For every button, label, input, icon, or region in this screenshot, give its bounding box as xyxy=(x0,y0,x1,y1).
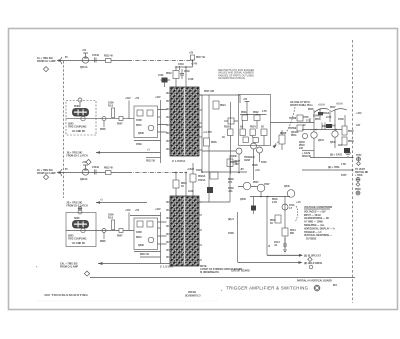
connector arrow CH2 xyxy=(59,171,62,174)
svg-text:FROM CH 2 LATCH: FROM CH 2 LATCH xyxy=(67,205,88,208)
svg-text:+4.5: +4.5 xyxy=(296,201,301,204)
svg-text:NOTE:: NOTE: xyxy=(200,266,207,268)
svg-text:C532: C532 xyxy=(261,162,267,164)
resistor R538 xyxy=(253,138,258,143)
wire: through box CH2 xyxy=(66,230,134,232)
svg-text:+ TRIG: + TRIG xyxy=(355,175,363,177)
transistor Q546 xyxy=(332,131,338,137)
wire: mid return CH2 xyxy=(130,215,161,217)
svg-text:+1: +1 xyxy=(100,200,103,202)
capacitor C543 xyxy=(283,238,287,250)
svg-text:R524: R524 xyxy=(220,104,226,107)
svg-text:R537: R537 xyxy=(253,182,259,184)
svg-text:+1: +1 xyxy=(147,150,150,152)
svg-text:PARTIAL A4 VERTICAL BOARD: PARTIAL A4 VERTICAL BOARD xyxy=(297,280,332,283)
svg-text:+15V: +15V xyxy=(125,210,131,212)
wire: inner verticals xyxy=(243,121,264,146)
svg-text:+ GATE: + GATE xyxy=(302,152,311,155)
svg-text:AT TIME — 10MS: AT TIME — 10MS xyxy=(304,221,323,224)
wire: DL1 right column xyxy=(201,95,203,172)
wire: through box CH1 xyxy=(66,118,134,120)
node: holdoff diamond xyxy=(84,271,89,276)
wire: extra output stubs xyxy=(320,108,325,130)
callout arc lower xyxy=(295,206,298,222)
svg-text:S603: S603 xyxy=(74,218,80,220)
svg-text:Q608: Q608 xyxy=(138,245,144,247)
svg-text:(B) HOLD DRIVE: (B) HOLD DRIVE xyxy=(304,263,323,265)
resistor R544 xyxy=(282,228,288,236)
wire: DL1 out top xyxy=(199,95,240,103)
svg-text:+0.6: +0.6 xyxy=(255,170,260,172)
resistor R532 xyxy=(254,115,260,121)
svg-text:.01: .01 xyxy=(274,245,278,247)
wire: bottom stub CH1 xyxy=(146,157,161,159)
delay line DL510 pins right xyxy=(199,202,202,260)
svg-text:C541: C541 xyxy=(289,204,295,207)
svg-text:Q546: Q546 xyxy=(330,141,336,144)
wire: trig line xyxy=(302,169,353,171)
wire: +5V drop xyxy=(192,61,194,68)
ferrite bead dark 2 xyxy=(207,187,213,193)
transistor Q613 xyxy=(82,169,88,175)
svg-text:FROM CH 1 AMP: FROM CH 1 AMP xyxy=(37,60,56,63)
wire: feeds into DL pins xyxy=(158,110,167,133)
svg-text:OUTSIDE: OUTSIDE xyxy=(306,239,317,241)
resistor R509 xyxy=(137,110,143,116)
wire: down from bus xyxy=(266,196,268,255)
capacitor C523 xyxy=(210,172,218,179)
svg-text:861: 861 xyxy=(333,285,338,287)
svg-text:680: 680 xyxy=(290,233,295,235)
transistor Q536 xyxy=(243,182,251,190)
svg-text:+C524: +C524 xyxy=(187,168,195,171)
svg-text:R540: R540 xyxy=(272,198,278,201)
wire: left vertical dashed bus xyxy=(63,61,65,198)
wire: q pair links xyxy=(238,187,261,197)
svg-text:R526: R526 xyxy=(211,142,217,144)
capacitor C505 xyxy=(102,117,106,121)
wire: into delay line top xyxy=(176,67,193,87)
switch S603 wafer xyxy=(73,221,89,229)
svg-text:L503: L503 xyxy=(158,75,164,77)
node diamond 1 xyxy=(357,162,361,166)
svg-text:Q543: Q543 xyxy=(299,141,305,144)
svg-text:+2.4V: +2.4V xyxy=(191,63,198,66)
svg-text:HORIZONTAL DISPLAY — A: HORIZONTAL DISPLAY — A xyxy=(304,227,335,230)
svg-text:2A + TRIG SIG: 2A + TRIG SIG xyxy=(37,169,53,172)
svg-text:R: R xyxy=(269,246,271,248)
svg-text:SWITCH BD: SWITCH BD xyxy=(355,172,369,174)
wire: DL2 top right link xyxy=(199,155,230,202)
svg-text:VERTICAL RESPONSE —: VERTICAL RESPONSE — xyxy=(304,234,333,237)
ground symbol lower xyxy=(283,250,287,253)
svg-text:C544: C544 xyxy=(274,241,280,244)
switch S603 enclosure CH2 xyxy=(66,213,96,247)
svg-text:R531: R531 xyxy=(241,112,247,114)
resistor R524 xyxy=(213,101,219,109)
svg-text:SWEEPING — ALL: SWEEPING — ALL xyxy=(304,224,325,227)
wire: amp to output xyxy=(271,122,315,124)
svg-text:+15V: +15V xyxy=(356,113,362,115)
svg-text:R546: R546 xyxy=(315,118,321,121)
svg-text:TP57: TP57 xyxy=(356,155,362,157)
svg-text:R534: R534 xyxy=(250,126,256,129)
svg-text:1.5K: 1.5K xyxy=(341,164,346,166)
svg-text:+5V: +5V xyxy=(82,162,87,164)
svg-text:C538: C538 xyxy=(228,233,234,235)
svg-text:R521 185: R521 185 xyxy=(204,91,215,93)
svg-text:+1 L505: +1 L505 xyxy=(203,132,212,134)
svg-text:Q513A: Q513A xyxy=(80,66,88,69)
resistor R548 xyxy=(342,137,347,145)
wire: output drops xyxy=(314,110,345,158)
tunnel diode TD509 xyxy=(297,125,303,131)
node: pickoff balloon CH2 xyxy=(78,207,82,211)
svg-text:C608: C608 xyxy=(136,232,142,234)
svg-text:R532: R532 xyxy=(253,112,259,114)
junction dot bus xyxy=(352,157,354,159)
svg-text:S503: S503 xyxy=(74,106,80,108)
delay line DL505 center gap xyxy=(184,88,185,156)
svg-text:INPUT — 50mV: INPUT — 50mV xyxy=(304,215,321,217)
ground symbol output xyxy=(345,153,351,156)
wire: +15V drop CH2 xyxy=(128,213,130,231)
delay line DL505 pins left xyxy=(167,93,171,149)
resistor R619 xyxy=(173,180,179,188)
delay line DL510 pin dots xyxy=(166,201,167,257)
svg-text:IS UNDERNEATH: IS UNDERNEATH xyxy=(200,271,219,274)
svg-text:AC GND DC: AC GND DC xyxy=(72,130,86,133)
resistor R517 xyxy=(191,55,195,60)
svg-text:OR DEPICTED IN BLUE: OR DEPICTED IN BLUE xyxy=(218,77,245,80)
svg-text:2B + TRIG SIG: 2B + TRIG SIG xyxy=(67,203,83,205)
svg-text:2 L510A: 2 L510A xyxy=(160,265,174,269)
wire: +15V drop xyxy=(128,101,130,119)
svg-text:+5V: +5V xyxy=(189,53,194,55)
svg-text:4.5V: 4.5V xyxy=(262,110,267,113)
svg-text:50: 50 xyxy=(65,57,68,59)
svg-text:C1543: C1543 xyxy=(92,54,100,57)
wire: emitter bus xyxy=(250,196,290,198)
svg-text:(B) SLOPE EXT: (B) SLOPE EXT xyxy=(304,256,322,258)
delay line DL510 pins left xyxy=(167,202,171,264)
svg-text:CAL + TRIG SIG: CAL + TRIG SIG xyxy=(60,263,78,266)
svg-text:R615 45: R615 45 xyxy=(104,167,114,170)
node: CH2 source diamond xyxy=(43,175,48,180)
resistor R537 xyxy=(243,137,248,143)
resistor R607 xyxy=(119,229,123,233)
svg-text:+5V: +5V xyxy=(135,210,140,212)
svg-text:185: 185 xyxy=(322,126,327,128)
resistor R534 xyxy=(250,129,255,136)
svg-text:-8V: -8V xyxy=(240,169,244,171)
svg-text:TRIG COUPLING: TRIG COUPLING xyxy=(68,127,87,129)
svg-text:CENT: CENT xyxy=(244,160,251,162)
wire: +gate line xyxy=(310,157,352,159)
svg-text:50: 50 xyxy=(65,169,68,171)
resistor R606 xyxy=(112,220,115,230)
svg-text:TD509: TD509 xyxy=(289,128,297,130)
svg-text:R547: R547 xyxy=(330,106,336,109)
wire: hold drive segment xyxy=(238,262,301,264)
wire: DL1 right column 2 xyxy=(208,95,210,202)
svg-text:R1.8: R1.8 xyxy=(108,218,114,220)
transistor Q603 small xyxy=(81,228,85,232)
svg-text:1A + TRIG SIG: 1A + TRIG SIG xyxy=(37,57,53,60)
wire: cal trig line into DL2 xyxy=(98,263,167,265)
transistor Q542 xyxy=(282,204,288,210)
tunnel diode TD508 xyxy=(297,115,303,121)
svg-text:C508: C508 xyxy=(136,120,142,122)
ferrite bead dark xyxy=(326,124,332,128)
svg-text:C518: C518 xyxy=(184,71,190,73)
svg-text:Q508: Q508 xyxy=(138,133,144,135)
inductor L503 dark xyxy=(162,78,168,83)
svg-text:1K: 1K xyxy=(181,186,184,188)
svg-text:C545: C545 xyxy=(303,116,309,119)
resistor R529 xyxy=(228,129,234,136)
wire: board boundary dashed bus xyxy=(352,40,354,303)
svg-text:R610: R610 xyxy=(136,237,142,239)
resistor R526 xyxy=(204,138,210,146)
svg-text:+5.0 A: +5.0 A xyxy=(318,104,325,107)
arc callout 2 xyxy=(331,109,347,112)
svg-text:466 SB: 466 SB xyxy=(188,291,196,294)
wire: slope stub xyxy=(237,212,239,263)
resistor R542 xyxy=(275,215,281,223)
wire: +gate stub xyxy=(302,150,314,152)
note: parts list text block xyxy=(218,69,254,80)
node: hold balloon xyxy=(309,265,313,269)
delay line DL510 body xyxy=(170,196,199,266)
node: slope balloon xyxy=(308,257,312,261)
svg-text:C1643: C1643 xyxy=(92,166,100,169)
svg-text:(B)+5: (B)+5 xyxy=(228,219,235,221)
svg-text:R546A: R546A xyxy=(322,112,330,115)
resistor R616 xyxy=(106,171,112,175)
svg-text:TO VERT: TO VERT xyxy=(355,169,366,171)
resistor R533 xyxy=(240,129,245,136)
svg-text:R528: R528 xyxy=(252,165,258,167)
wire: slope lower segment xyxy=(267,254,300,256)
svg-text:AC GND DC: AC GND DC xyxy=(72,242,86,245)
title diamond xyxy=(314,285,320,291)
wire: amp drops xyxy=(239,149,260,180)
svg-text:R544: R544 xyxy=(290,229,296,232)
delay line DL510 center gap xyxy=(184,197,185,266)
svg-text:R536: R536 xyxy=(280,133,286,135)
resistor R527 xyxy=(227,159,233,167)
dotted tear line xyxy=(37,300,218,302)
transistor Q530 xyxy=(236,148,242,154)
svg-text:47: 47 xyxy=(303,124,306,127)
capacitor C614 xyxy=(95,170,97,175)
svg-text:R505: R505 xyxy=(100,129,106,131)
resistor R519 xyxy=(173,71,179,79)
wire: lower return CH1 xyxy=(134,140,161,142)
wire: Q530 base line xyxy=(202,150,236,152)
wire: cluster vertical CH2 xyxy=(160,212,162,264)
svg-text:C524A: C524A xyxy=(198,179,206,182)
svg-text:R605: R605 xyxy=(100,241,106,243)
svg-text:C606: C606 xyxy=(108,215,114,217)
wire: lower return CH2 xyxy=(134,251,161,253)
svg-text:R543: R543 xyxy=(299,144,305,147)
svg-text:+5V: +5V xyxy=(243,99,248,101)
delay line DL505 body xyxy=(170,87,199,156)
transistor Q538 xyxy=(257,184,265,192)
ferrite dark blob xyxy=(344,148,350,153)
svg-text:C518: C518 xyxy=(178,64,184,66)
resistor R531 xyxy=(242,115,248,121)
svg-text:VOLTAGE CONDITIONS: VOLTAGE CONDITIONS xyxy=(304,206,332,209)
svg-text:R612 1K: R612 1K xyxy=(140,254,150,256)
capacitor C522 xyxy=(228,118,234,124)
svg-text:R519: R519 xyxy=(166,73,172,75)
svg-text:L518: L518 xyxy=(188,79,194,81)
testpoint 2 xyxy=(356,178,360,182)
delay line DL505 pins right xyxy=(199,95,202,150)
amplifier stage CH1 sub-box xyxy=(134,106,158,138)
svg-text:R542: R542 xyxy=(270,219,276,222)
transistor Q544 xyxy=(311,132,317,138)
svg-text:162: 162 xyxy=(338,145,343,147)
svg-text:Q540: Q540 xyxy=(284,185,290,188)
wire: CH1 input line xyxy=(57,60,128,62)
node balloon 2 xyxy=(78,210,82,214)
svg-text:Q544: Q544 xyxy=(318,139,324,142)
wire: link to amp xyxy=(202,171,247,173)
svg-text:TRIGGER AMPLIFIER & SWITCHIN: TRIGGER AMPLIFIER & SWITCHING xyxy=(226,286,309,291)
svg-text:R529: R529 xyxy=(224,127,230,129)
svg-text:C537: C537 xyxy=(264,184,270,186)
wire: output mesh xyxy=(302,118,345,130)
svg-text:R515 45: R515 45 xyxy=(104,55,114,58)
junction dots top xyxy=(192,60,194,62)
diode CR538 dark xyxy=(251,206,256,211)
transistor Q509 xyxy=(148,125,154,131)
wire: second top drop xyxy=(185,67,187,87)
svg-text:R539: R539 xyxy=(228,179,234,181)
svg-text:Q530: Q530 xyxy=(231,156,237,158)
capacitor C518 xyxy=(180,69,184,79)
svg-text:S603: S603 xyxy=(68,236,74,238)
svg-text:Q536: Q536 xyxy=(240,199,246,201)
svg-text:2K: 2K xyxy=(261,127,264,129)
transistor Q503 small xyxy=(81,116,85,120)
svg-text:R619: R619 xyxy=(181,183,187,185)
wire: post-DL1 bottom column xyxy=(192,163,194,196)
resistor R609 xyxy=(137,221,143,227)
wire: pickoff line CH1 with arrow xyxy=(96,152,161,154)
svg-text:R507: R507 xyxy=(117,124,123,126)
svg-text:2.4K: 2.4K xyxy=(272,201,277,204)
wire: q540 branch xyxy=(284,196,286,248)
svg-text:(B) + TRIG: (B) + TRIG xyxy=(328,167,340,169)
node balloon 1 xyxy=(78,98,82,102)
node diamond 2 xyxy=(356,183,360,187)
svg-text:R512 1K: R512 1K xyxy=(146,161,156,163)
svg-text:C47: C47 xyxy=(356,124,361,127)
resistor R506 xyxy=(112,108,115,118)
svg-text:C509: C509 xyxy=(136,144,142,146)
callout arc xyxy=(274,107,295,145)
svg-text:R545: R545 xyxy=(308,108,314,111)
capacitor C514 xyxy=(95,58,97,63)
svg-text:S503: S503 xyxy=(68,124,74,126)
wire: feeds into DL2 pins xyxy=(158,222,167,244)
svg-text:+15V: +15V xyxy=(125,98,131,100)
wire: left column xyxy=(230,102,232,174)
svg-text:1K: 1K xyxy=(270,223,273,225)
transistor Q609 xyxy=(148,237,154,243)
wire: CH2 input line xyxy=(57,172,128,174)
svg-text:R526A: R526A xyxy=(230,161,238,164)
trigger amp enclosure xyxy=(239,95,271,146)
transistor Q532 xyxy=(251,143,257,149)
svg-text:+15V: +15V xyxy=(155,97,161,99)
svg-text:+15V: +15V xyxy=(155,209,161,211)
transistor Q543 xyxy=(302,133,307,138)
svg-text:1K: 1K xyxy=(222,137,225,139)
wire: CH2 drops into DL2 xyxy=(176,173,186,197)
wire: bottom stub CH2 xyxy=(140,256,161,258)
svg-text:FRONT PANEL PULL: FRONT PANEL PULL xyxy=(290,104,314,107)
resistor R535 xyxy=(261,129,267,136)
svg-text:TRIGGER — 1.0: TRIGGER — 1.0 xyxy=(304,232,322,234)
connector arrow CH1 xyxy=(59,59,62,62)
resistor R549 xyxy=(342,126,347,135)
svg-text:R607: R607 xyxy=(117,236,123,238)
svg-text:C539: C539 xyxy=(228,188,234,190)
resistor R511 xyxy=(147,110,153,116)
svg-text:R510: R510 xyxy=(136,125,142,127)
wire: pickoff line CH2 with arrow xyxy=(96,202,147,204)
svg-text:R523A: R523A xyxy=(198,175,206,178)
connector P2 xyxy=(61,169,63,176)
resistor R523A xyxy=(190,174,196,182)
svg-text:FROM CH 1 LATCH: FROM CH 1 LATCH xyxy=(67,155,88,158)
wire: cluster vertical CH1 xyxy=(160,100,162,163)
capacitor C605 xyxy=(102,229,106,233)
wire: board outline bottom xyxy=(90,277,355,279)
svg-text:2 L505A: 2 L505A xyxy=(172,159,186,163)
svg-text:.001: .001 xyxy=(228,191,233,193)
svg-text:Q613A: Q613A xyxy=(80,178,88,181)
switch S503 enclosure CH1 dashed xyxy=(66,101,96,136)
svg-text:+5V: +5V xyxy=(82,50,87,52)
svg-text:C548: C548 xyxy=(338,118,344,121)
svg-text:Q543A: Q543A xyxy=(291,131,299,134)
svg-text:C557: C557 xyxy=(341,175,347,177)
svg-text:+5V: +5V xyxy=(135,98,140,100)
switch S503 wafer xyxy=(73,109,89,117)
svg-text:466 TROUBLESHOOTING: 466 TROUBLESHOOTING xyxy=(44,293,88,297)
svg-text:R549: R549 xyxy=(348,130,354,133)
svg-text:C506: C506 xyxy=(108,103,114,105)
transistor Q540 xyxy=(287,190,295,198)
svg-text:C523: C523 xyxy=(196,170,202,172)
svg-text:1B + TRIG SIG: 1B + TRIG SIG xyxy=(67,153,83,155)
delay line DL505 pin dots xyxy=(166,92,167,149)
svg-text:ADJ DELAY WITH: ADJ DELAY WITH xyxy=(290,101,310,104)
transistor Q513 xyxy=(82,57,88,63)
svg-text:R541: R541 xyxy=(291,134,297,137)
svg-text:TD508: TD508 xyxy=(289,118,297,120)
resistor R507 xyxy=(119,117,123,121)
svg-text:R517 1K: R517 1K xyxy=(196,57,206,59)
svg-text:(B) + GATE: (B) + GATE xyxy=(330,154,343,157)
